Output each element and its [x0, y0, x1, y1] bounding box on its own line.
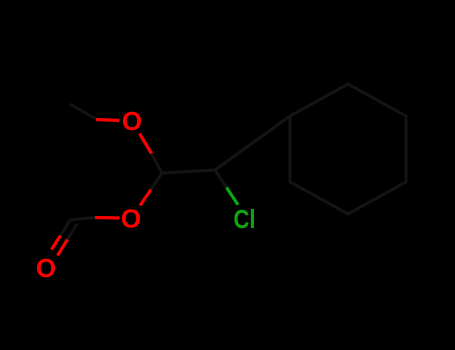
wire: CH2-O bond (red, to ether oxygen) — [96, 120, 120, 121]
wire: acetal carbon to CHCl carbon (gray) — [162, 170, 215, 173]
svg-text:O: O — [122, 106, 142, 136]
wire: C=O double bond line 2 gray half — [68, 224, 78, 240]
wire: CHCl carbon to cyclohexane ring carbon (gray) — [215, 116, 290, 170]
svg-text:O: O — [121, 204, 141, 234]
wire: CHCl to Cl, gray half near C — [215, 170, 227, 188]
wire: C=O double bond line 2 red half — [58, 240, 68, 256]
wire: O2 to acetal carbon, red half near O — [140, 190, 151, 206]
wire: ethyl CH3 stub bond (carbon gray) — [70, 104, 96, 119]
node O3: carbonyl oxygen label (bottom left) — [36, 253, 56, 283]
node ring: cyclohexane ring hexagon (gray) — [290, 84, 406, 214]
node O1: ether oxygen label (top) — [122, 106, 142, 136]
wire: O2 to carbonyl carbon, gray half near C — [70, 218, 95, 221]
node Cl: chlorine label — [234, 204, 256, 234]
wire: O1 to acetal carbon, red half near O — [140, 134, 152, 154]
wire: O1 to acetal carbon, gray half near C — [152, 154, 163, 174]
wire: O2 to acetal carbon, gray half near C — [151, 173, 162, 190]
svg-text:Cl: Cl — [234, 204, 256, 234]
wire: CHCl to Cl, green half near Cl — [227, 188, 239, 205]
wire: O2 to carbonyl carbon, red half near O — [95, 216, 120, 220]
svg-text:O: O — [36, 253, 56, 283]
wire: C=O double bond line 1 red half — [52, 236, 61, 250]
wire: C=O double bond line 1 gray half — [61, 220, 71, 236]
node O2: ester oxygen label (bottom) — [121, 204, 141, 234]
